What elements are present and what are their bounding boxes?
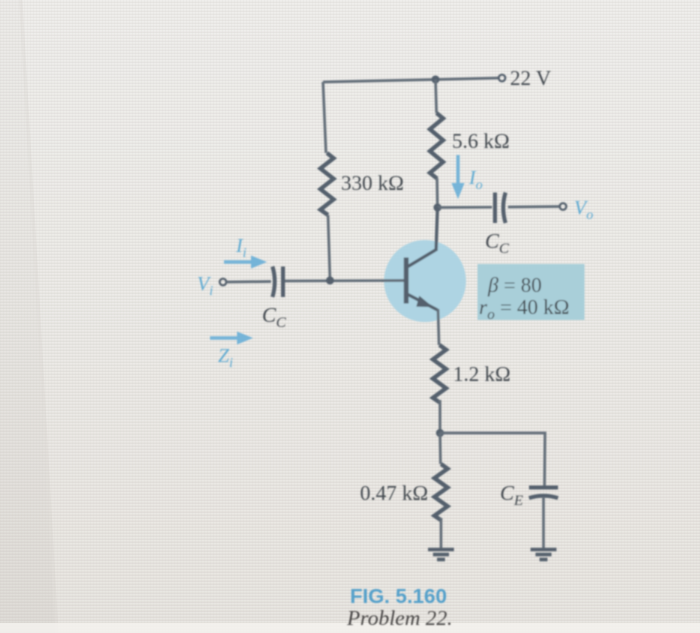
ground G1 [428, 550, 454, 560]
emitter arrowhead [416, 296, 433, 307]
svg-text:0.47 kΩ: 0.47 kΩ [360, 481, 428, 505]
svg-text:5.6 kΩ: 5.6 kΩ [452, 129, 510, 153]
impedance arrow Zi [210, 332, 253, 345]
svg-text:FIG. 5.160: FIG. 5.160 [350, 585, 447, 608]
svg-text:22 V: 22 V [510, 66, 551, 90]
wire: 5.6k branch lower [436, 178, 439, 208]
terminal: Vo open circle [560, 203, 567, 210]
node A: supply/5.6k junction [432, 76, 440, 84]
terminal: 22 V open circle [499, 75, 506, 82]
svg-text:1.2 kΩ: 1.2 kΩ [453, 362, 511, 386]
wire: emitter vertical lower [439, 400, 442, 433]
resistor RB 330k [320, 153, 333, 215]
wire: collector vertical [436, 208, 438, 252]
transistor highlight circle [384, 240, 466, 322]
capacitor CC output [495, 193, 506, 224]
wire: left branch lower [328, 215, 330, 280]
capacitor CC input [273, 267, 284, 298]
wire: CE to ground [542, 497, 545, 548]
base bar [404, 258, 409, 304]
wire: left branch upper [323, 82, 326, 153]
wire: collector to output cap [438, 206, 493, 209]
transistor Q1 [404, 208, 438, 311]
annotation box: beta and ro [478, 264, 585, 320]
resistor RE2 0.47k [434, 464, 447, 521]
node D: emitter junction [436, 429, 444, 437]
wire: to RE2 [439, 433, 442, 464]
bottom light strip [0, 623, 700, 633]
node B: collector junction [434, 204, 442, 212]
wire: RE2 to ground [440, 518, 443, 548]
svg-text:330 kΩ: 330 kΩ [341, 171, 404, 195]
resistor RC 5.6k [430, 113, 443, 178]
wire: input cap to base [285, 279, 404, 282]
current arrow Io [452, 155, 465, 199]
node C: base junction with RB [326, 277, 334, 285]
collector diagonal [408, 250, 436, 267]
page left edge shading [0, 0, 1, 1]
wire: emitter vertical upper [438, 309, 439, 345]
wire: to CE branch [440, 433, 545, 486]
capacitor CE [529, 488, 558, 499]
current arrow Ii [224, 256, 267, 269]
wire: 5.6k branch upper [436, 80, 437, 114]
svg-text:Problem 22.: Problem 22. [346, 606, 453, 630]
wire: output cap to Vo terminal [508, 205, 560, 208]
ground G2 [531, 550, 557, 560]
terminal: Vi open circle [220, 279, 227, 286]
wire: top supply rail [323, 78, 499, 82]
svg-text:β = 80: β = 80 [487, 273, 542, 297]
wire: Vi to input cap [227, 280, 272, 283]
resistor RE1 1.2k [433, 345, 446, 403]
emitter diagonal [408, 295, 438, 311]
